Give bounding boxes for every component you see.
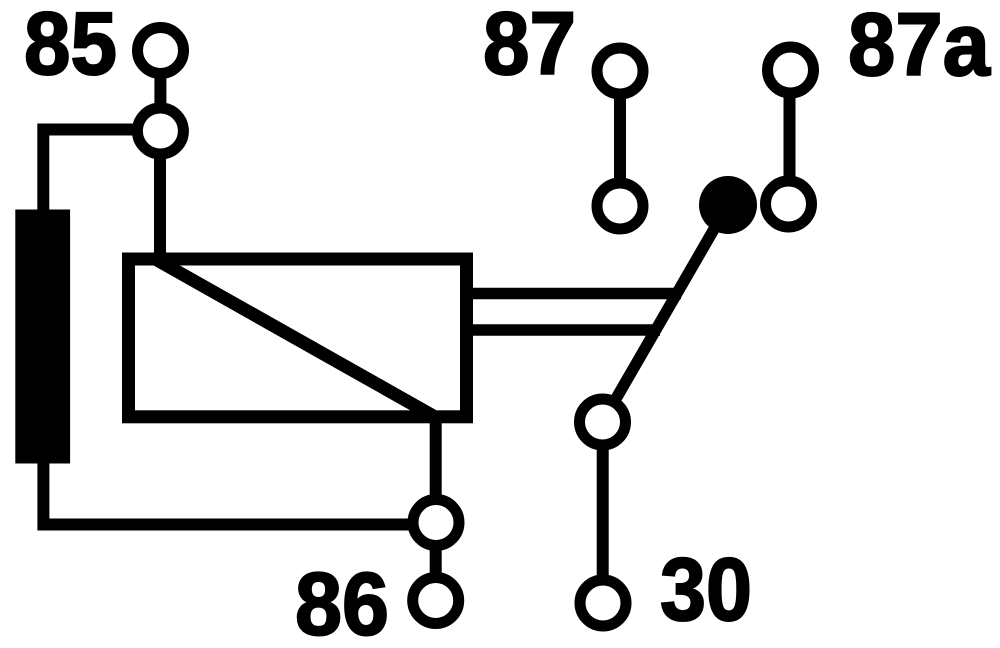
actuator linkage line 1 — [473, 288, 681, 300]
svg-text:87: 87 — [483, 0, 576, 93]
terminal 87 circle — [597, 48, 643, 94]
svg-text:86: 86 — [295, 554, 389, 648]
wire junction to coil box top — [154, 131, 166, 262]
svg-text:85: 85 — [24, 0, 117, 93]
junction circle 85 — [137, 108, 183, 154]
terminal 86 circle — [413, 578, 459, 624]
wire junction to resistor top (left L-shape) — [43, 130, 160, 212]
svg-text:87a: 87a — [848, 0, 991, 94]
terminal 85 circle — [138, 28, 184, 74]
coil diagonal — [157, 260, 437, 418]
terminal 30 circle — [580, 580, 626, 626]
coil box K1 — [129, 259, 467, 417]
contact circle 30 (switch end) — [580, 399, 626, 445]
contact circle 87a — [766, 181, 812, 227]
pivot node (common) — [699, 176, 757, 234]
junction circle 86 — [413, 500, 459, 546]
wire terminal 87 to contact 87 — [614, 71, 626, 206]
wire 86 junction to terminal 86 — [430, 522, 442, 601]
resistor R1 — [15, 210, 70, 464]
wire resistor bottom to terminal 86 (bottom L-shape) — [43, 462, 414, 525]
wire contact 30 to terminal 30 — [597, 422, 609, 603]
actuator linkage line 2 — [473, 324, 660, 336]
contact circle 87 — [597, 183, 643, 229]
svg-text:30: 30 — [660, 539, 752, 639]
wire from terminal 85 to junction — [154, 50, 166, 131]
switch arm — [603, 205, 729, 422]
wire coil box bottom to terminal 86 junction — [430, 416, 442, 522]
terminal 87a circle — [768, 47, 814, 93]
wire terminal 87a to contact 87a — [784, 70, 796, 204]
